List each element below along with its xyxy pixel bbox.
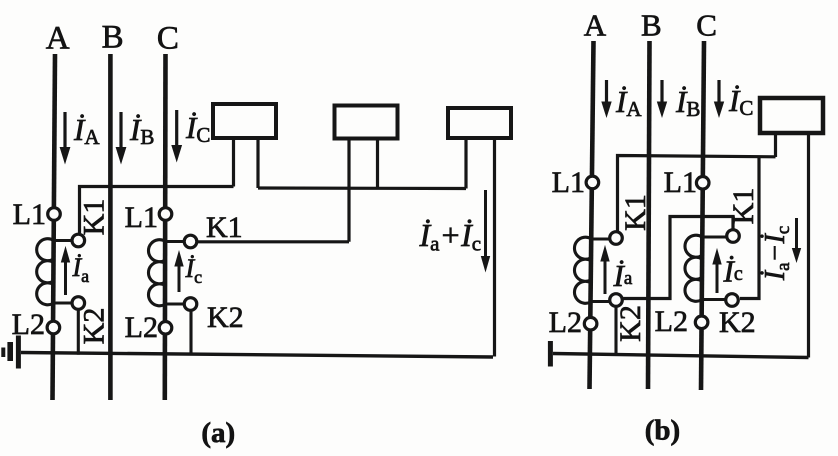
wire TA2 bottom connector	[592, 300, 610, 303]
svg-text:L1: L1	[13, 198, 46, 231]
current arrow Ic (b)	[712, 248, 743, 293]
wire PA1 left lead	[232, 138, 235, 187]
current arrow Ia+Ic (a)	[419, 190, 491, 273]
svg-text:B: B	[641, 8, 662, 43]
terminal L2 (TC2)	[695, 316, 708, 329]
svg-text:K1: K1	[619, 194, 652, 231]
svg-text:L1: L1	[552, 166, 585, 199]
terminal L1 (TC1)	[159, 208, 172, 221]
current arrow Ia (a)	[61, 246, 89, 295]
wire common bus PA1-PA2-PA3	[258, 186, 466, 190]
transformer TC2 winding (phase C CT, fig b)	[685, 235, 702, 301]
terminal L2 (TC1)	[159, 322, 172, 335]
terminal K1 (TC1)	[184, 235, 197, 248]
terminal K1 (TA2)	[610, 232, 623, 245]
svg-text:K2: K2	[719, 306, 756, 339]
ammeter PA1 (a)	[213, 104, 276, 138]
terminal K2 (TC2)	[726, 294, 739, 307]
terminal K2 (TC1)	[184, 298, 197, 311]
svg-text:İa+İc: İa+İc	[419, 217, 482, 256]
ammeter PA2 (a)	[335, 106, 398, 139]
terminal L1 (TA2)	[586, 176, 599, 189]
ammeter PA (b)	[760, 98, 823, 133]
wire bus K1a to PA1	[80, 187, 234, 234]
wire PA3 left lead	[464, 138, 467, 189]
terminal K1 (TA1)	[72, 234, 85, 247]
wire TC2 bottom connector	[702, 298, 726, 301]
svg-text:(b): (b)	[645, 415, 680, 447]
current arrow Ia (b)	[600, 245, 633, 294]
terminal L1 (TA1)	[48, 208, 61, 221]
wire PA1 right lead	[256, 138, 259, 188]
svg-text:A: A	[46, 21, 70, 57]
ground symbol (b)	[548, 341, 553, 367]
phase line B (a)	[108, 54, 113, 400]
svg-text:(a): (a)	[201, 417, 235, 449]
svg-text:K1: K1	[206, 211, 243, 244]
phase line A (a)	[53, 54, 56, 400]
svg-text:İB: İB	[675, 84, 700, 121]
wire PA left lead	[774, 133, 777, 157]
svg-text:L2: L2	[125, 311, 158, 344]
svg-text:K2: K2	[78, 308, 111, 345]
svg-text:C: C	[157, 21, 179, 57]
wire PA3 right lead	[493, 138, 496, 357]
svg-text:İA: İA	[73, 112, 100, 149]
terminal L2 (TA1)	[47, 321, 60, 334]
current arrow IC (a)	[171, 110, 210, 163]
wire TC1 bottom connector	[166, 302, 184, 305]
current arrow Ic (a)	[174, 250, 202, 292]
svg-text:İA: İA	[615, 84, 642, 121]
svg-text:L1: L1	[664, 166, 697, 199]
svg-text:İc: İc	[185, 254, 203, 287]
svg-text:İa: İa	[613, 258, 633, 293]
wire K1c to PA2	[198, 240, 350, 243]
wire PA right lead	[807, 133, 810, 358]
terminal K2 (TA1)	[72, 297, 85, 310]
current arrow IA (b)	[601, 80, 642, 121]
phase line B (b)	[648, 41, 650, 389]
svg-text:B: B	[102, 20, 124, 56]
transformer TA2 winding (phase A CT, fig b)	[574, 237, 591, 303]
wire K2c-b riser to PA left bus	[740, 156, 759, 298]
svg-text:K2: K2	[207, 301, 244, 334]
ground symbol (a)	[3, 336, 18, 369]
terminal K2 (TA2)	[610, 294, 623, 307]
wire K1a-b to PA left	[618, 156, 776, 232]
svg-text:K1: K1	[727, 188, 760, 225]
svg-text:İc: İc	[723, 254, 743, 289]
wire TC2 top connector	[702, 235, 726, 238]
ammeter PA3 (a)	[448, 108, 511, 138]
phase line C (b)	[701, 41, 704, 390]
svg-text:İa: İa	[72, 253, 90, 286]
wire K2a-b to K1c-b cross link	[623, 217, 733, 299]
svg-text:C: C	[696, 8, 717, 43]
svg-text:K2: K2	[614, 305, 647, 342]
terminal L1 (TC2)	[696, 177, 709, 190]
phase line C (a)	[163, 54, 168, 400]
svg-text:K1: K1	[78, 199, 111, 236]
transformer TC1 winding (phase C CT, fig a)	[148, 240, 165, 306]
phase line A (b)	[590, 41, 594, 389]
svg-text:İC: İC	[185, 110, 210, 147]
current arrow Ia-Ic (b)	[760, 218, 801, 281]
current arrow IB (a)	[116, 112, 155, 165]
wire PA2 left lead	[347, 139, 350, 242]
svg-text:A: A	[584, 8, 607, 43]
terminal L2 (TA2)	[584, 317, 597, 330]
ground bus (a)	[21, 353, 493, 358]
svg-text:İC: İC	[728, 83, 753, 120]
svg-text:İB: İB	[129, 112, 154, 149]
current arrow IB (b)	[657, 80, 701, 121]
transformer TA1 winding (phase A CT, fig a)	[37, 239, 54, 305]
wire TA2 top connector	[592, 237, 610, 240]
svg-text:L2: L2	[549, 306, 582, 339]
wire PA2 right lead	[376, 139, 379, 189]
svg-text:L2: L2	[655, 305, 688, 338]
ground bus (b)	[553, 354, 809, 358]
wire TA1 top connector	[54, 239, 72, 242]
current arrow IC (b)	[714, 80, 754, 120]
wire K2c to ground bus	[189, 311, 192, 355]
wire TC1 top connector	[166, 240, 184, 243]
terminal K1 (TC2)	[727, 230, 740, 243]
wire TA1 bottom connector	[54, 301, 72, 304]
wire K2a to ground bus	[77, 310, 80, 355]
wire K2a-b to ground bus	[614, 307, 617, 355]
svg-text:İa−İc: İa−İc	[760, 226, 794, 281]
current arrow IA (a)	[60, 112, 101, 165]
svg-text:L1: L1	[125, 201, 158, 234]
